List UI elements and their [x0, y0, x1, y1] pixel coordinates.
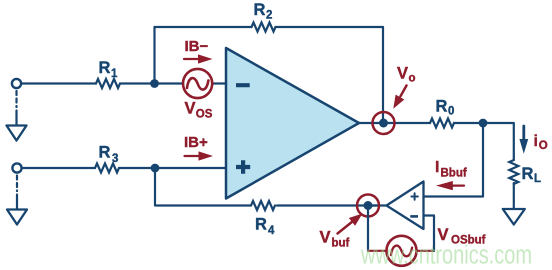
- wire dashed to ground 1: [15, 91, 17, 107]
- resistor R4: [251, 201, 275, 210]
- node Vbuf: [364, 201, 373, 210]
- wire op-amp output: [359, 122, 430, 124]
- label iO with arrow: [522, 126, 525, 140]
- svg-text:V: V: [185, 100, 196, 118]
- node junction 2: [151, 164, 160, 173]
- wire bottom loop red: [368, 250, 434, 252]
- wire R0 to load corner: [454, 123, 514, 160]
- svg-text:OS: OS: [196, 109, 213, 121]
- svg-text:V: V: [397, 65, 408, 83]
- wire RL to ground: [513, 183, 515, 208]
- svg-text:R: R: [255, 216, 267, 234]
- wire input upper from terminal to op-amp minus: [22, 82, 227, 84]
- resistor RL: [509, 160, 518, 184]
- svg-text:R: R: [99, 59, 111, 77]
- node Vo: [379, 119, 388, 128]
- svg-text:IB+: IB+: [184, 134, 208, 151]
- svg-text:R: R: [522, 165, 534, 183]
- svg-text:4: 4: [268, 225, 275, 237]
- wire junction2 down to R4 line: [155, 168, 378, 206]
- svg-text:i: i: [534, 133, 538, 150]
- resistor R2: [252, 23, 276, 32]
- svg-text:www.cntronics.com: www.cntronics.com: [360, 242, 532, 270]
- voltage source VOS: [183, 69, 212, 98]
- svg-text:buf: buf: [332, 238, 350, 250]
- resistor R3: [95, 164, 119, 173]
- ground 1: [7, 126, 27, 141]
- svg-text:Bbuf: Bbuf: [441, 168, 467, 180]
- svg-text:R: R: [99, 144, 111, 162]
- terminal input 2: [12, 163, 21, 172]
- svg-text:IB−: IB−: [185, 38, 209, 55]
- ground 2: [7, 210, 27, 225]
- svg-text:R: R: [254, 1, 266, 19]
- svg-text:1: 1: [111, 68, 118, 80]
- ground 3: [503, 209, 525, 225]
- svg-text:2: 2: [266, 10, 272, 22]
- svg-text:L: L: [534, 173, 541, 185]
- wire junction3 down and left to buffer plus input: [424, 123, 484, 197]
- svg-text:I: I: [435, 159, 439, 176]
- terminal input 1: [12, 79, 21, 88]
- node junction 3: [479, 119, 488, 128]
- wire feedback down to output node: [382, 27, 384, 123]
- op-amp U1: [226, 48, 359, 199]
- svg-text:0: 0: [448, 106, 454, 118]
- svg-text:R: R: [436, 98, 448, 116]
- wire dashed to ground 2: [16, 176, 18, 192]
- wire junction1 up to feedback: [153, 27, 155, 84]
- svg-text:o: o: [409, 73, 416, 85]
- resistor R0: [430, 119, 454, 128]
- wire buffer minus input loop: [424, 216, 435, 251]
- wire input lower from terminal to op-amp plus: [22, 167, 226, 169]
- wire buffer output to node: [372, 204, 387, 206]
- buffer op-amp U2: [387, 182, 424, 230]
- svg-text:3: 3: [112, 153, 118, 165]
- wire Vbuf node down: [367, 206, 369, 251]
- wire feedback top: [155, 26, 384, 28]
- voltage source VOSbuf: [387, 236, 417, 266]
- node junction 1: [150, 79, 159, 88]
- svg-text:O: O: [539, 140, 548, 152]
- svg-text:V: V: [320, 229, 331, 247]
- resistor R1: [96, 79, 120, 88]
